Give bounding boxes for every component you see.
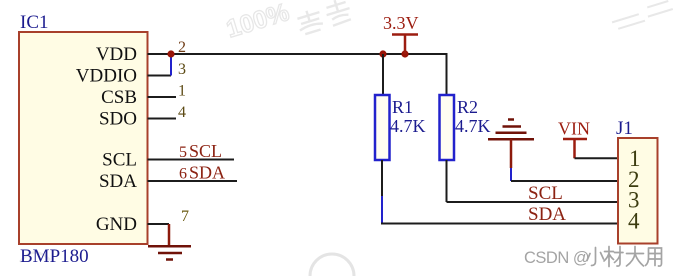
wire VDDIO riser (blue) (170, 53, 172, 76)
power symbol 3.3V (383, 13, 419, 54)
svg-text:R2: R2 (457, 97, 478, 117)
svg-text:7: 7 (181, 208, 189, 225)
wire SDA net to J1 pin4 (381, 223, 619, 225)
svg-text:5: 5 (179, 144, 187, 161)
faint watermark arc bottom center (310, 254, 354, 276)
junction dot at 3.3V tap (401, 50, 408, 57)
svg-text:R1: R1 (392, 97, 413, 117)
resistor R2 (440, 95, 455, 160)
svg-text:SDO: SDO (99, 109, 137, 130)
svg-text:100%: 100% (223, 0, 292, 44)
wire GND stub (148, 223, 170, 225)
char 材 (604, 247, 623, 267)
char 小 (587, 248, 604, 266)
IC U? box IC1 (19, 32, 148, 244)
svg-text:SDA: SDA (99, 171, 137, 192)
wire ground to J1 pin2 (511, 180, 619, 182)
svg-text:IC1: IC1 (20, 12, 49, 33)
CSDN watermark (524, 247, 662, 268)
svg-text:4.7K: 4.7K (455, 116, 491, 136)
svg-text:SDA: SDA (189, 163, 225, 183)
svg-text:SCL: SCL (102, 150, 137, 171)
faint watermark arc bottom left (20, 252, 50, 262)
svg-text:BMP180: BMP180 (20, 246, 89, 267)
resistor R1 (375, 95, 390, 160)
svg-text:J1: J1 (616, 118, 633, 139)
svg-text:CSDN @: CSDN @ (524, 249, 589, 267)
wire SCL net to J1 pin3 (447, 201, 620, 203)
junction dot at VDD pin (167, 50, 174, 57)
wire VDD pin2 to R2 top corner (148, 53, 447, 55)
svg-text:CSB: CSB (101, 87, 137, 108)
wire R1 bottom (black upper part) (381, 160, 383, 196)
svg-text:SCL: SCL (528, 183, 563, 204)
ground symbol (middle, bars widening downward) (488, 120, 534, 140)
svg-text:SDA: SDA (528, 204, 566, 225)
ground symbol (below IC GND pin) (168, 224, 171, 246)
power port VIN (558, 119, 590, 159)
svg-text:VDD: VDD (96, 44, 137, 65)
svg-text:4.7K: 4.7K (390, 116, 426, 136)
wire VDDIO stub (148, 75, 172, 77)
connector J1 box (618, 138, 658, 244)
wire SDA stub (148, 180, 238, 182)
wire R1 bottom (blue lower part) (381, 196, 383, 224)
wire CSB stub (148, 96, 177, 98)
svg-text:4: 4 (178, 104, 186, 121)
wire R2 bottom (446, 160, 448, 202)
wire R1 top (382, 54, 384, 95)
faint watermark 100% top (223, 0, 292, 44)
svg-text:1: 1 (178, 83, 186, 100)
svg-text:3.3V: 3.3V (383, 13, 419, 33)
svg-text:GND: GND (96, 214, 137, 235)
ground stem lower (blue) (510, 168, 512, 181)
svg-text:SCL: SCL (189, 141, 222, 161)
wire VIN to J1 pin1 (575, 157, 620, 159)
char 用 (646, 248, 662, 266)
faint watermark dashes top right (611, 0, 674, 30)
svg-text:VIN: VIN (558, 119, 590, 139)
ground stem (dark red) (510, 139, 513, 168)
svg-text:3: 3 (178, 61, 186, 78)
svg-text:6: 6 (179, 166, 187, 183)
wire SDO stub (148, 118, 177, 120)
wire R2 top (446, 53, 448, 95)
junction dot at R1 branch (379, 50, 386, 57)
char 大 (627, 247, 644, 267)
hand-drawn CJK: 小 材 大 用 (587, 247, 662, 267)
svg-text:VDDIO: VDDIO (76, 66, 137, 87)
wire SCL stub (148, 159, 235, 161)
svg-text:4: 4 (628, 209, 640, 234)
